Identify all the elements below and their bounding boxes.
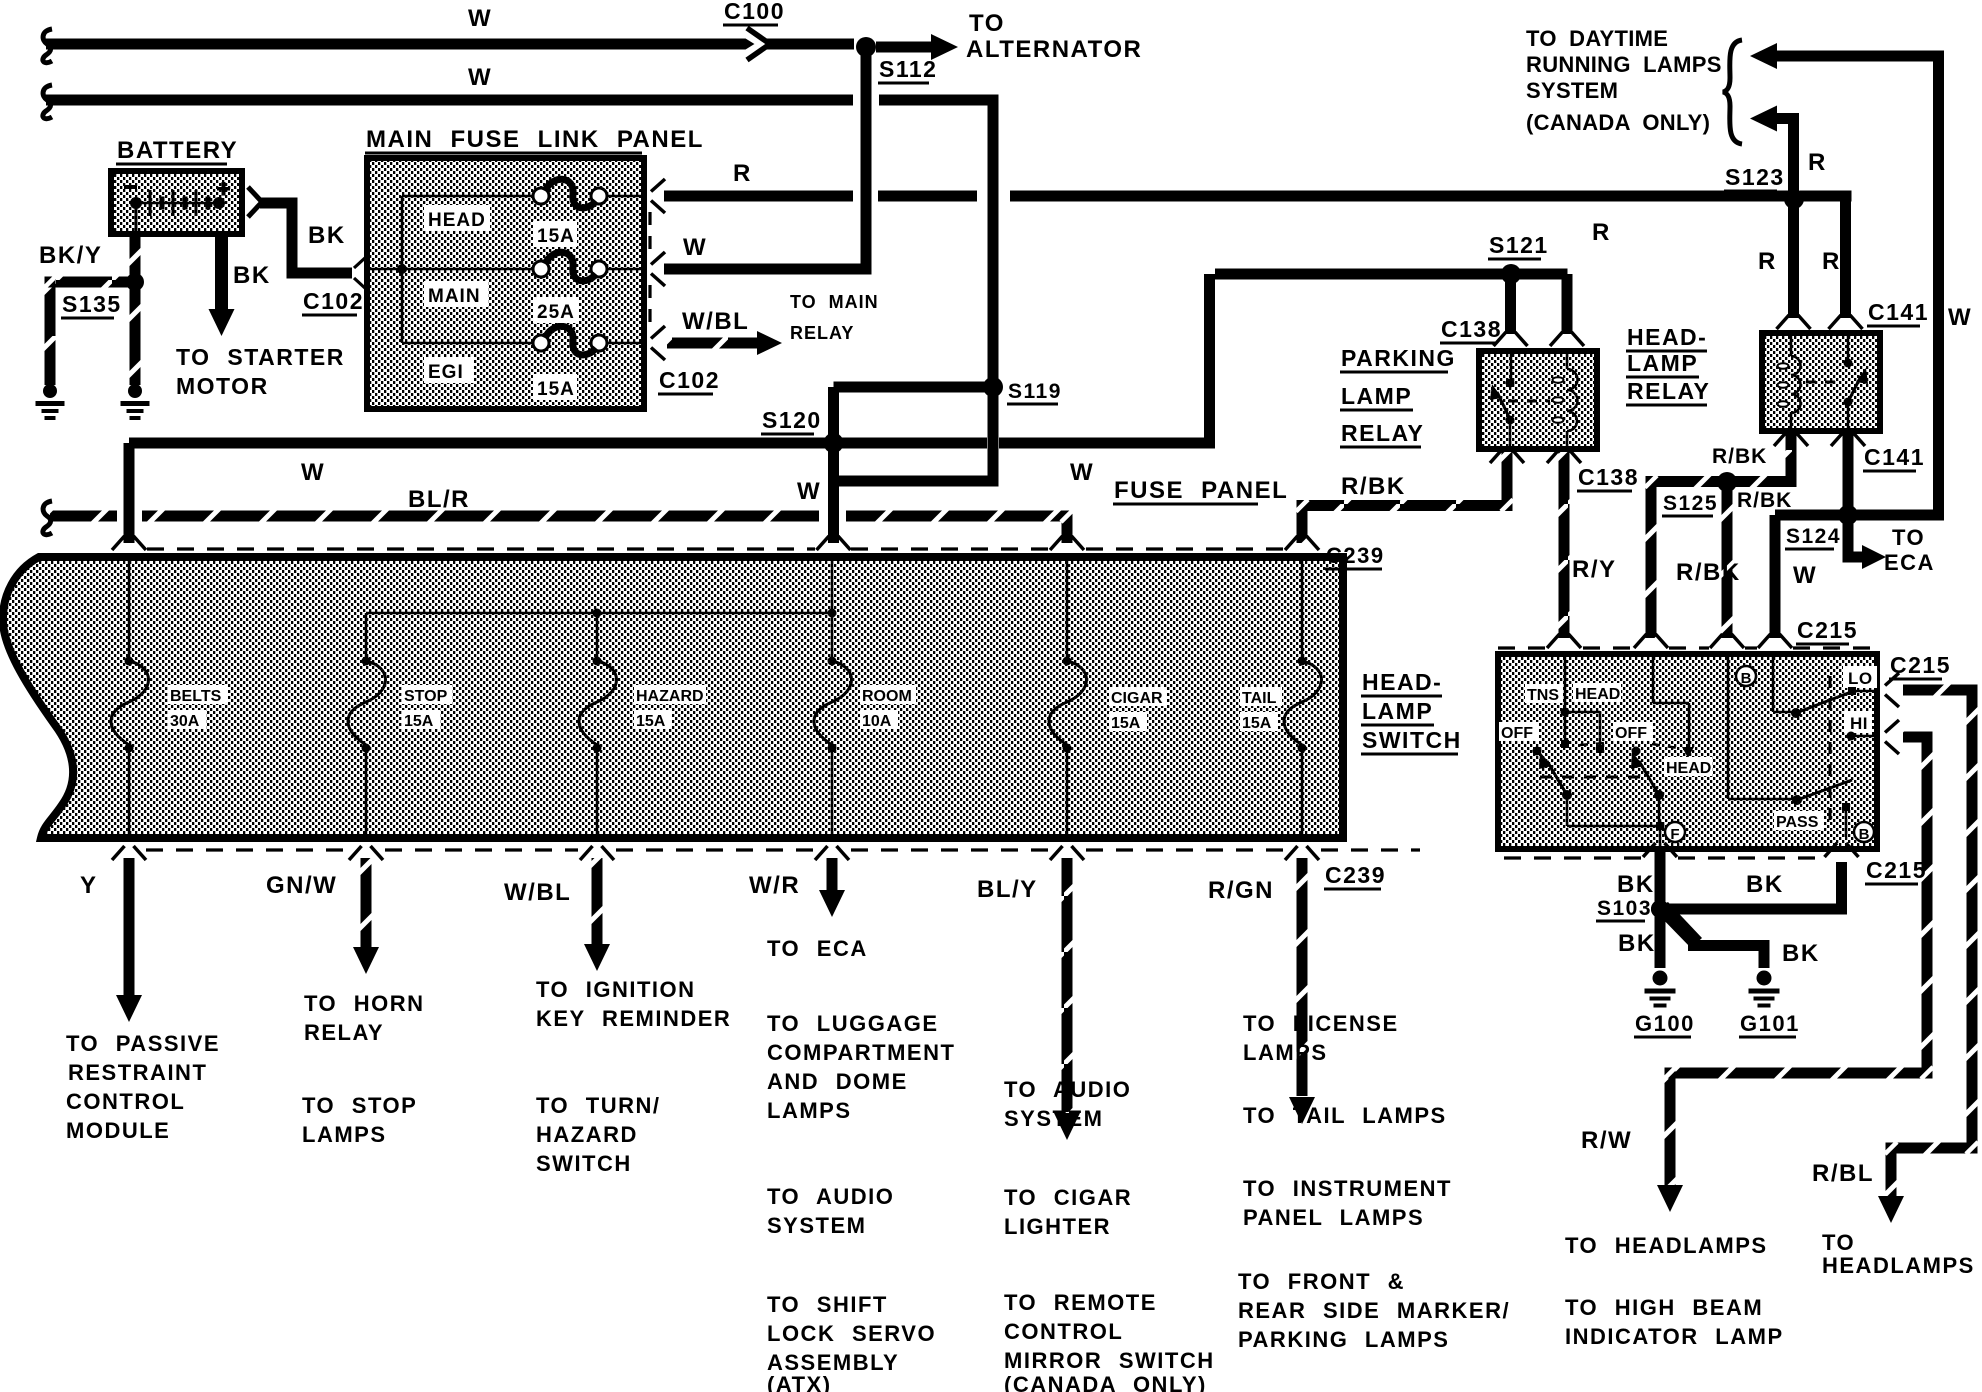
switch arm common wire: [1566, 795, 1569, 826]
svg-text:R/W: R/W: [1581, 1127, 1632, 1154]
hatched corner BK/Y: [45, 277, 56, 288]
svg-text:TO: TO: [1892, 525, 1925, 550]
connector C239 Y flare: [112, 846, 125, 860]
connector C239 R/BK flare: [1285, 536, 1298, 550]
connector C215 bottom flares: [1643, 843, 1656, 857]
hatched corner R/BL left: [1886, 1143, 1897, 1154]
wire W fuse-link to S112: [664, 264, 871, 275]
svg-text:TO AUDIO: TO AUDIO: [767, 1184, 894, 1209]
ground at S135: [128, 384, 142, 398]
svg-text:TO ECA: TO ECA: [767, 936, 868, 961]
splice S125: [1718, 473, 1736, 491]
svg-text:MODULE: MODULE: [66, 1118, 170, 1143]
svg-text:W: W: [468, 5, 492, 32]
svg-text:MIRROR SWITCH: MIRROR SWITCH: [1004, 1348, 1215, 1373]
wire BK S103 to G100: [1655, 916, 1666, 968]
switch OFF label: [1499, 722, 1539, 741]
svg-text:TO REMOTE: TO REMOTE: [1004, 1290, 1157, 1315]
wire W S120 horizontal: [129, 438, 987, 449]
hatched corner BL/R: [1062, 511, 1073, 522]
switch PASS label: [1774, 811, 1824, 830]
svg-text:R: R: [1592, 219, 1611, 246]
svg-text:HAZARD: HAZARD: [536, 1122, 638, 1147]
fuse MAIN 25A: [533, 261, 549, 277]
wire W S121 horizontal: [1215, 269, 1506, 280]
wire R/BK drop to TAIL: [1297, 506, 1308, 544]
svg-text:CONTROL: CONTROL: [1004, 1319, 1123, 1344]
svg-text:RELAY: RELAY: [1341, 420, 1424, 446]
splice S119: [984, 378, 1002, 396]
svg-text:RELAY: RELAY: [790, 323, 854, 343]
switch HEAD2 contact: [1682, 747, 1694, 758]
svg-text:COMPARTMENT: COMPARTMENT: [767, 1040, 955, 1065]
parking lamp relay box: [1476, 348, 1600, 452]
svg-text:R/Y: R/Y: [1572, 556, 1617, 583]
connector C239 W/R flare: [815, 846, 828, 860]
svg-text:ALTERNATOR: ALTERNATOR: [966, 36, 1142, 63]
svg-text:C215: C215: [1890, 652, 1951, 678]
svg-text:TO IGNITION: TO IGNITION: [536, 977, 696, 1002]
wire W/BL to main relay: [667, 338, 757, 349]
wire parking relay left pin: [1505, 280, 1516, 335]
svg-text:TAIL: TAIL: [1242, 690, 1277, 707]
svg-text:B: B: [1859, 826, 1870, 843]
headlamp relay box: [1759, 330, 1883, 434]
svg-text:BELTS: BELTS: [170, 688, 222, 705]
connector C239 BL/Y flare: [1050, 846, 1063, 860]
svg-text:TO CIGAR: TO CIGAR: [1004, 1185, 1132, 1210]
svg-text:TO INSTRUMENT: TO INSTRUMENT: [1243, 1176, 1452, 1201]
hatched corner S125 left: [1646, 476, 1657, 487]
svg-text:HEAD: HEAD: [1666, 760, 1711, 777]
svg-text:INDICATOR LAMP: INDICATOR LAMP: [1565, 1324, 1784, 1349]
wire S119 left horizontal: [834, 382, 991, 393]
svg-text:TO HEADLAMPS: TO HEADLAMPS: [1565, 1233, 1768, 1258]
brace daytime: [1723, 40, 1742, 144]
svg-text:HEAD: HEAD: [428, 210, 486, 231]
switch HEAD label: [1573, 683, 1621, 702]
svg-text:FUSE PANEL: FUSE PANEL: [1114, 477, 1288, 504]
wire BK S103 diagonal: [1654, 902, 1702, 948]
fuse HEAD value 15A: [533, 221, 577, 247]
splice S120: [825, 434, 843, 452]
svg-text:S112: S112: [879, 56, 937, 82]
svg-text:S121: S121: [1489, 232, 1549, 258]
connector C141 bottom flares: [1774, 432, 1787, 446]
splice S103 dot overlay: [1651, 900, 1669, 918]
wire W alternator: [46, 39, 854, 50]
wire BL/Y exit: [1062, 858, 1073, 1112]
wire R/BK parking relay drop: [1502, 452, 1513, 511]
parking lamp relay internals: [1510, 354, 1513, 380]
svg-text:PASS: PASS: [1776, 814, 1819, 831]
svg-text:PARKING: PARKING: [1341, 345, 1456, 371]
svg-text:Y: Y: [80, 872, 98, 899]
svg-text:LOCK SERVO: LOCK SERVO: [767, 1321, 936, 1346]
connector C239 W/BL flare: [580, 846, 593, 860]
svg-text:G101: G101: [1740, 1011, 1800, 1036]
svg-text:15A: 15A: [1111, 715, 1141, 732]
fuse MAIN value 25A: [533, 297, 579, 323]
headlamp switch TNS feed: [1564, 657, 1567, 712]
svg-text:RESTRAINT: RESTRAINT: [68, 1060, 207, 1085]
svg-text:S124: S124: [1786, 525, 1841, 548]
svg-text:W: W: [1793, 562, 1817, 589]
splice S125 dot overlay: [1717, 472, 1737, 492]
svg-text:TO STARTER: TO STARTER: [176, 344, 345, 370]
wire W from S112 down: [861, 47, 872, 275]
splice S119 dot overlay: [983, 377, 1003, 397]
svg-text:(ATX): (ATX): [767, 1372, 832, 1392]
svg-text:W: W: [1948, 304, 1972, 331]
svg-text:C215: C215: [1797, 617, 1858, 643]
fuse TAIL label: [1240, 687, 1282, 706]
svg-text:G100: G100: [1635, 1011, 1695, 1036]
svg-text:TNS: TNS: [1527, 687, 1559, 704]
connector C239 GN/W flare: [349, 846, 362, 860]
wire headlamp relay left pin lower: [1786, 434, 1797, 450]
splice S123 dot overlay: [1784, 189, 1804, 209]
switch dimmer pivot PASS: [1792, 795, 1802, 805]
svg-text:TO TAIL LAMPS: TO TAIL LAMPS: [1243, 1103, 1447, 1128]
svg-text:C102: C102: [303, 288, 364, 314]
wire W daytime arrow: [1770, 51, 1944, 62]
splice S124: [1839, 506, 1857, 524]
fuse STOP value 15A: [402, 710, 440, 729]
switch OFF2 contact: [1632, 747, 1641, 756]
svg-text:SYSTEM: SYSTEM: [1526, 78, 1618, 103]
svg-text:PARKING LAMPS: PARKING LAMPS: [1238, 1327, 1449, 1352]
svg-text:(CANADA ONLY): (CANADA ONLY): [1526, 110, 1710, 135]
wire parking relay right pin: [1562, 274, 1573, 334]
connector C102 dashed line: [648, 212, 651, 253]
svg-text:C100: C100: [724, 0, 785, 24]
svg-text:RELAY: RELAY: [1627, 378, 1710, 404]
wire R/BK S125 left branch: [1646, 476, 1720, 487]
svg-text:LO: LO: [1848, 669, 1873, 688]
fuse HEAD label: [424, 205, 490, 231]
fuse CIGAR element: [1066, 558, 1069, 657]
switch PASS contact: [1842, 803, 1850, 811]
splice S103: [1651, 900, 1669, 918]
wire R/W HI output: [1903, 732, 1933, 743]
switch TNS label: [1525, 684, 1563, 703]
svg-text:RELAY: RELAY: [304, 1020, 384, 1045]
connector C239 W-ROOM flare: [817, 536, 830, 550]
svg-text:TO: TO: [1822, 1230, 1855, 1255]
fuse CIGAR value 15A: [1109, 712, 1147, 731]
switch circled B bottom: [1854, 822, 1874, 842]
switch OFF2 label: [1613, 722, 1653, 741]
svg-text:SWITCH: SWITCH: [1362, 727, 1462, 753]
svg-text:OFF: OFF: [1615, 725, 1647, 742]
wire BK/Y battery down: [130, 237, 141, 276]
connector C239 bottom dashed line: [146, 848, 347, 851]
fuse panel box: [3, 557, 1343, 838]
svg-text:C141: C141: [1864, 444, 1925, 470]
svg-text:F: F: [1670, 826, 1679, 843]
svg-text:C138: C138: [1441, 316, 1502, 342]
svg-text:GN/W: GN/W: [266, 872, 337, 899]
svg-text:KEY REMINDER: KEY REMINDER: [536, 1006, 731, 1031]
splice S123: [1785, 190, 1803, 208]
switch HEAD feed line: [1688, 703, 1691, 748]
svg-text:TO DAYTIME: TO DAYTIME: [1526, 26, 1668, 51]
svg-text:R/BK: R/BK: [1676, 559, 1741, 586]
hatched corner R/W left: [1665, 1068, 1676, 1079]
svg-text:TO STOP: TO STOP: [302, 1093, 417, 1118]
fuse EGI label: [424, 357, 474, 383]
connector C102 entry flare: [354, 257, 366, 268]
svg-text:BK: BK: [308, 222, 346, 249]
wire BK switch to S103: [1655, 849, 1666, 902]
svg-text:S119: S119: [1008, 380, 1062, 403]
hatched corner R/BK relay: [1502, 500, 1513, 511]
wire R/BK S125 down branch: [1722, 489, 1733, 638]
svg-text:BK: BK: [1617, 871, 1655, 898]
wire S124 to ECA arrow: [1843, 515, 1854, 563]
fuse EGI value 15A: [533, 374, 577, 400]
wire R/GN exit: [1297, 858, 1308, 1096]
wire W2 vertical to S119: [988, 95, 999, 487]
svg-text:HEAD: HEAD: [1575, 686, 1620, 703]
wire W alternator hook: [43, 29, 52, 63]
svg-text:LAMP: LAMP: [1341, 383, 1412, 409]
wire BK S103 right: [1666, 904, 1847, 915]
svg-text:TO LUGGAGE: TO LUGGAGE: [767, 1011, 939, 1036]
wire W/R exit: [827, 858, 838, 891]
svg-text:BL/R: BL/R: [408, 486, 470, 513]
splice S121: [1502, 265, 1520, 283]
svg-text:CONTROL: CONTROL: [66, 1089, 185, 1114]
wire W S124 horizontal: [1775, 510, 1944, 521]
svg-text:C102: C102: [659, 367, 720, 393]
svg-text:S135: S135: [62, 291, 122, 317]
headlamp relay internals: [1790, 336, 1793, 356]
wire GN/W exit: [361, 858, 372, 948]
switch LO pivot arm: [1791, 708, 1801, 718]
fuse BELTS element: [128, 558, 131, 657]
wire W to alternator arrow: [876, 42, 934, 53]
wire BL/R drop to CIGAR: [1062, 511, 1073, 544]
svg-text:BK: BK: [1782, 940, 1820, 967]
svg-text:R/BK: R/BK: [1341, 473, 1406, 500]
svg-text:SYSTEM: SYSTEM: [1004, 1106, 1103, 1131]
ground at BK/Y: [43, 384, 57, 398]
fuse HEAD 15A: [533, 188, 549, 204]
svg-text:HI: HI: [1850, 714, 1868, 733]
connector C239 W-BELTS flare: [112, 536, 125, 550]
svg-text:STOP: STOP: [404, 688, 448, 705]
svg-text:S103: S103: [1597, 897, 1652, 920]
svg-text:B: B: [1741, 670, 1752, 687]
svg-text:25A: 25A: [537, 302, 575, 323]
hatched corner R/BL right: [1967, 1143, 1978, 1154]
svg-text:10A: 10A: [862, 713, 892, 730]
svg-text:MAIN: MAIN: [428, 286, 481, 307]
splice S120 dot overlay: [824, 433, 844, 453]
svg-text:S120: S120: [762, 407, 822, 433]
svg-text:MOTOR: MOTOR: [176, 373, 269, 399]
switch OFF contact: [1533, 747, 1542, 756]
svg-text:C141: C141: [1868, 299, 1929, 325]
wire W2 hook: [43, 85, 52, 119]
switch arm 1: [1547, 761, 1567, 795]
fuse ROOM element: [831, 558, 834, 657]
connector C102 exit flares: [651, 179, 665, 192]
svg-text:TO FRONT &: TO FRONT &: [1238, 1269, 1405, 1294]
svg-text:S125: S125: [1663, 492, 1718, 515]
switch dimmer dashed travel: [1829, 676, 1832, 820]
svg-text:RUNNING LAMPS: RUNNING LAMPS: [1526, 52, 1722, 77]
switch HEAD2 label: [1664, 757, 1712, 776]
svg-text:PANEL LAMPS: PANEL LAMPS: [1243, 1205, 1424, 1230]
fuse ROOM label: [860, 685, 916, 704]
switch circled B top: [1736, 666, 1756, 686]
svg-text:W: W: [797, 478, 821, 505]
fuse HAZARD value 15A: [634, 710, 672, 729]
hatched corner R/BK tail: [1297, 500, 1308, 511]
connector C239 R/GN flare: [1285, 846, 1298, 860]
svg-text:SWITCH: SWITCH: [536, 1151, 632, 1176]
fuse TAIL value 15A: [1240, 712, 1278, 731]
svg-text:BK: BK: [233, 262, 271, 289]
svg-text:R/BK: R/BK: [1737, 489, 1792, 512]
wire S119-S120 vertical: [828, 387, 839, 543]
svg-text:W: W: [468, 64, 492, 91]
connector C138 top flares: [1494, 332, 1507, 346]
svg-text:TO TURN/: TO TURN/: [536, 1093, 660, 1118]
fuse HAZARD element: [596, 613, 599, 657]
switch LO feed: [1772, 657, 1775, 712]
fuse BELTS label: [168, 685, 228, 704]
splice S112: [857, 38, 875, 56]
svg-text:R/BK: R/BK: [1712, 445, 1767, 468]
svg-text:CIGAR: CIGAR: [1111, 690, 1163, 707]
wire W S121 corner vertical: [1204, 274, 1215, 449]
svg-text:REAR SIDE MARKER/: REAR SIDE MARKER/: [1238, 1298, 1510, 1323]
svg-text:R: R: [733, 160, 752, 187]
fuse HAZARD label: [634, 685, 706, 704]
switch travel dashes: [1540, 776, 1640, 779]
wire battery positive BK: [260, 198, 298, 209]
fuse STOP label: [402, 685, 452, 704]
battery internal cells: [136, 202, 219, 205]
wire R from fuse link: [664, 191, 853, 202]
svg-text:15A: 15A: [537, 379, 575, 400]
fuse MAIN label: [424, 281, 488, 307]
svg-text:15A: 15A: [636, 713, 666, 730]
svg-text:ROOM: ROOM: [862, 688, 912, 705]
wire R/BK horizontal to TAIL: [1302, 500, 1513, 511]
svg-text:R: R: [1758, 248, 1777, 275]
svg-text:R: R: [1808, 149, 1827, 176]
svg-text:R/BL: R/BL: [1812, 1160, 1874, 1187]
splice S124 dot overlay: [1838, 505, 1858, 525]
fuse panel internal bus: [366, 612, 832, 615]
connector C215 top dashed line: [1498, 646, 1547, 649]
fuse ROOM value 10A: [860, 710, 898, 729]
wire R/BL LO output: [1903, 685, 1978, 696]
svg-text:BL/Y: BL/Y: [977, 876, 1038, 903]
svg-text:HEADLAMPS: HEADLAMPS: [1822, 1253, 1975, 1278]
svg-text:TO MAIN: TO MAIN: [790, 292, 879, 312]
wire Y exit: [124, 858, 135, 995]
svg-text:TO HIGH BEAM: TO HIGH BEAM: [1565, 1295, 1763, 1320]
connector C215 top flares: [1547, 634, 1560, 648]
battery B1 box: [108, 168, 245, 237]
splice S135: [126, 273, 144, 291]
switch dimmer feed: [1727, 657, 1730, 799]
svg-text:R: R: [1822, 248, 1841, 275]
svg-text:15A: 15A: [537, 226, 575, 247]
switch HI contact: [1844, 711, 1872, 733]
wire BK/Y S135 to ground: [130, 288, 141, 385]
svg-text:ECA: ECA: [1884, 550, 1935, 575]
svg-text:BK: BK: [1618, 930, 1656, 957]
wire W S124 to switch: [1770, 515, 1781, 638]
splice S121 dot overlay: [1501, 264, 1521, 284]
svg-text:TO HORN: TO HORN: [304, 991, 425, 1016]
svg-text:HAZARD: HAZARD: [636, 688, 704, 705]
svg-text:BK: BK: [1746, 871, 1784, 898]
svg-text:15A: 15A: [1242, 715, 1272, 732]
wire BK battery to starter arrow: [215, 237, 228, 312]
wire R vertical to C141 left: [1840, 196, 1851, 318]
svg-text:W: W: [301, 459, 325, 486]
svg-text:W/BL: W/BL: [682, 308, 749, 335]
fuse STOP element: [365, 613, 368, 657]
svg-text:C239: C239: [1325, 862, 1386, 888]
wire R S123 to C141 left pin: [1788, 199, 1799, 318]
svg-text:LAMP: LAMP: [1627, 350, 1698, 376]
svg-text:TO SHIFT: TO SHIFT: [767, 1292, 888, 1317]
svg-text:C215: C215: [1866, 857, 1927, 883]
battery output chevron: [248, 187, 262, 217]
svg-text:TO AUDIO: TO AUDIO: [1004, 1077, 1131, 1102]
svg-text:HEAD-: HEAD-: [1627, 324, 1707, 350]
connector C100: [741, 31, 762, 57]
headlamp switch box: [1495, 651, 1880, 852]
svg-text:LAMP: LAMP: [1362, 698, 1433, 724]
wire BK/Y to left ground: [50, 277, 129, 288]
svg-text:HEAD-: HEAD-: [1362, 669, 1442, 695]
svg-text:LAMPS: LAMPS: [1243, 1040, 1328, 1065]
fuse EGI 15A: [533, 335, 549, 351]
switch arm 2: [1639, 761, 1659, 795]
wire R S123 up-arrow: [1788, 113, 1799, 199]
svg-text:W: W: [683, 234, 707, 261]
connector C239 BL/R flare: [1050, 536, 1063, 550]
svg-text:TO: TO: [969, 10, 1005, 37]
ground G101: [1757, 971, 1772, 986]
svg-text:W/BL: W/BL: [504, 879, 571, 906]
svg-text:C239: C239: [1326, 543, 1385, 568]
svg-text:R/GN: R/GN: [1208, 877, 1274, 904]
fuse TAIL element: [1301, 558, 1304, 657]
wire W to BELTS vertical: [124, 443, 135, 543]
svg-text:(CANADA ONLY): (CANADA ONLY): [1004, 1372, 1207, 1392]
svg-text:TO PASSIVE: TO PASSIVE: [66, 1031, 220, 1056]
connector C239 top dashed line: [147, 547, 815, 550]
connector C215 bottom dashed line: [1504, 856, 1642, 859]
svg-text:TO LICENSE: TO LICENSE: [1243, 1011, 1399, 1036]
svg-text:LAMPS: LAMPS: [767, 1098, 852, 1123]
svg-text:OFF: OFF: [1501, 725, 1533, 742]
wire headlamp relay right pin: [1843, 434, 1854, 515]
main fuse link panel box: [364, 155, 647, 412]
svg-text:LIGHTER: LIGHTER: [1004, 1214, 1111, 1239]
